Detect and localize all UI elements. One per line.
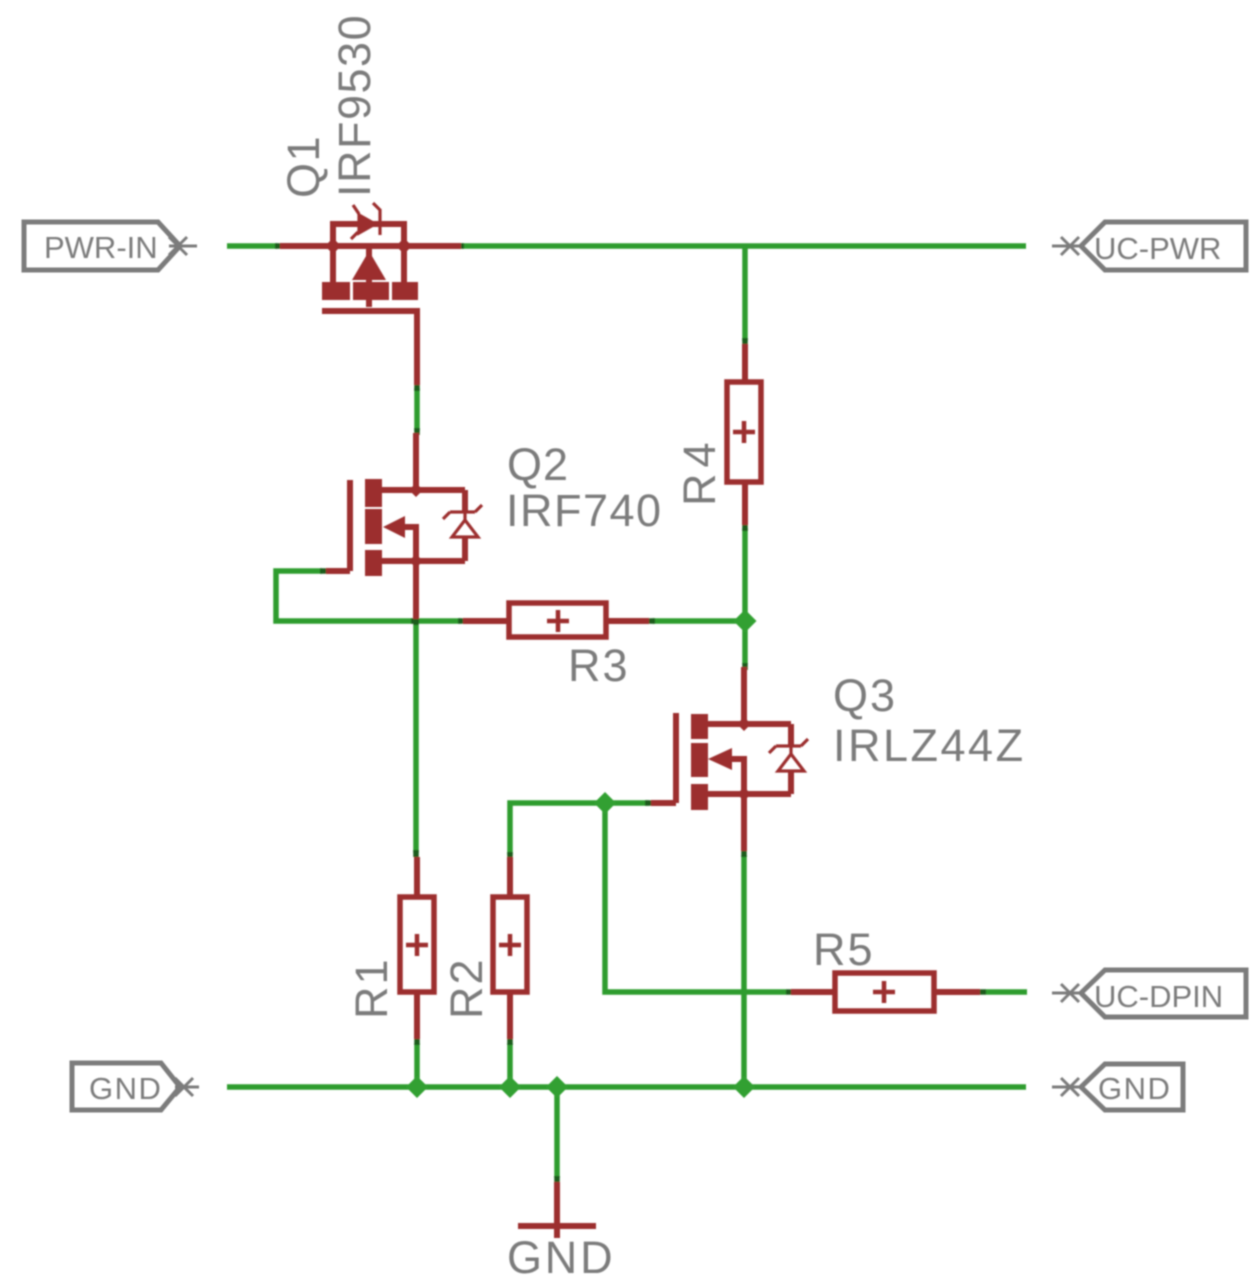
svg-text:GND: GND bbox=[507, 1232, 615, 1280]
svg-text:IRF740: IRF740 bbox=[506, 485, 663, 536]
svg-text:R2: R2 bbox=[441, 957, 492, 1019]
svg-text:R5: R5 bbox=[813, 924, 875, 975]
svg-text:GND: GND bbox=[89, 1071, 162, 1106]
svg-text:UC-PWR: UC-PWR bbox=[1094, 231, 1221, 266]
svg-text:R1: R1 bbox=[346, 957, 397, 1019]
svg-text:GND: GND bbox=[1098, 1071, 1171, 1106]
svg-text:Q1: Q1 bbox=[278, 135, 329, 198]
svg-text:Q3: Q3 bbox=[833, 670, 897, 721]
svg-text:IRLZ44Z: IRLZ44Z bbox=[833, 720, 1026, 771]
svg-text:R4: R4 bbox=[674, 436, 725, 506]
svg-text:IRF9530: IRF9530 bbox=[329, 14, 380, 197]
svg-text:R3: R3 bbox=[568, 640, 630, 691]
svg-text:UC-DPIN: UC-DPIN bbox=[1094, 979, 1223, 1014]
svg-text:PWR-IN: PWR-IN bbox=[44, 230, 158, 265]
svg-text:Q2: Q2 bbox=[507, 439, 569, 490]
